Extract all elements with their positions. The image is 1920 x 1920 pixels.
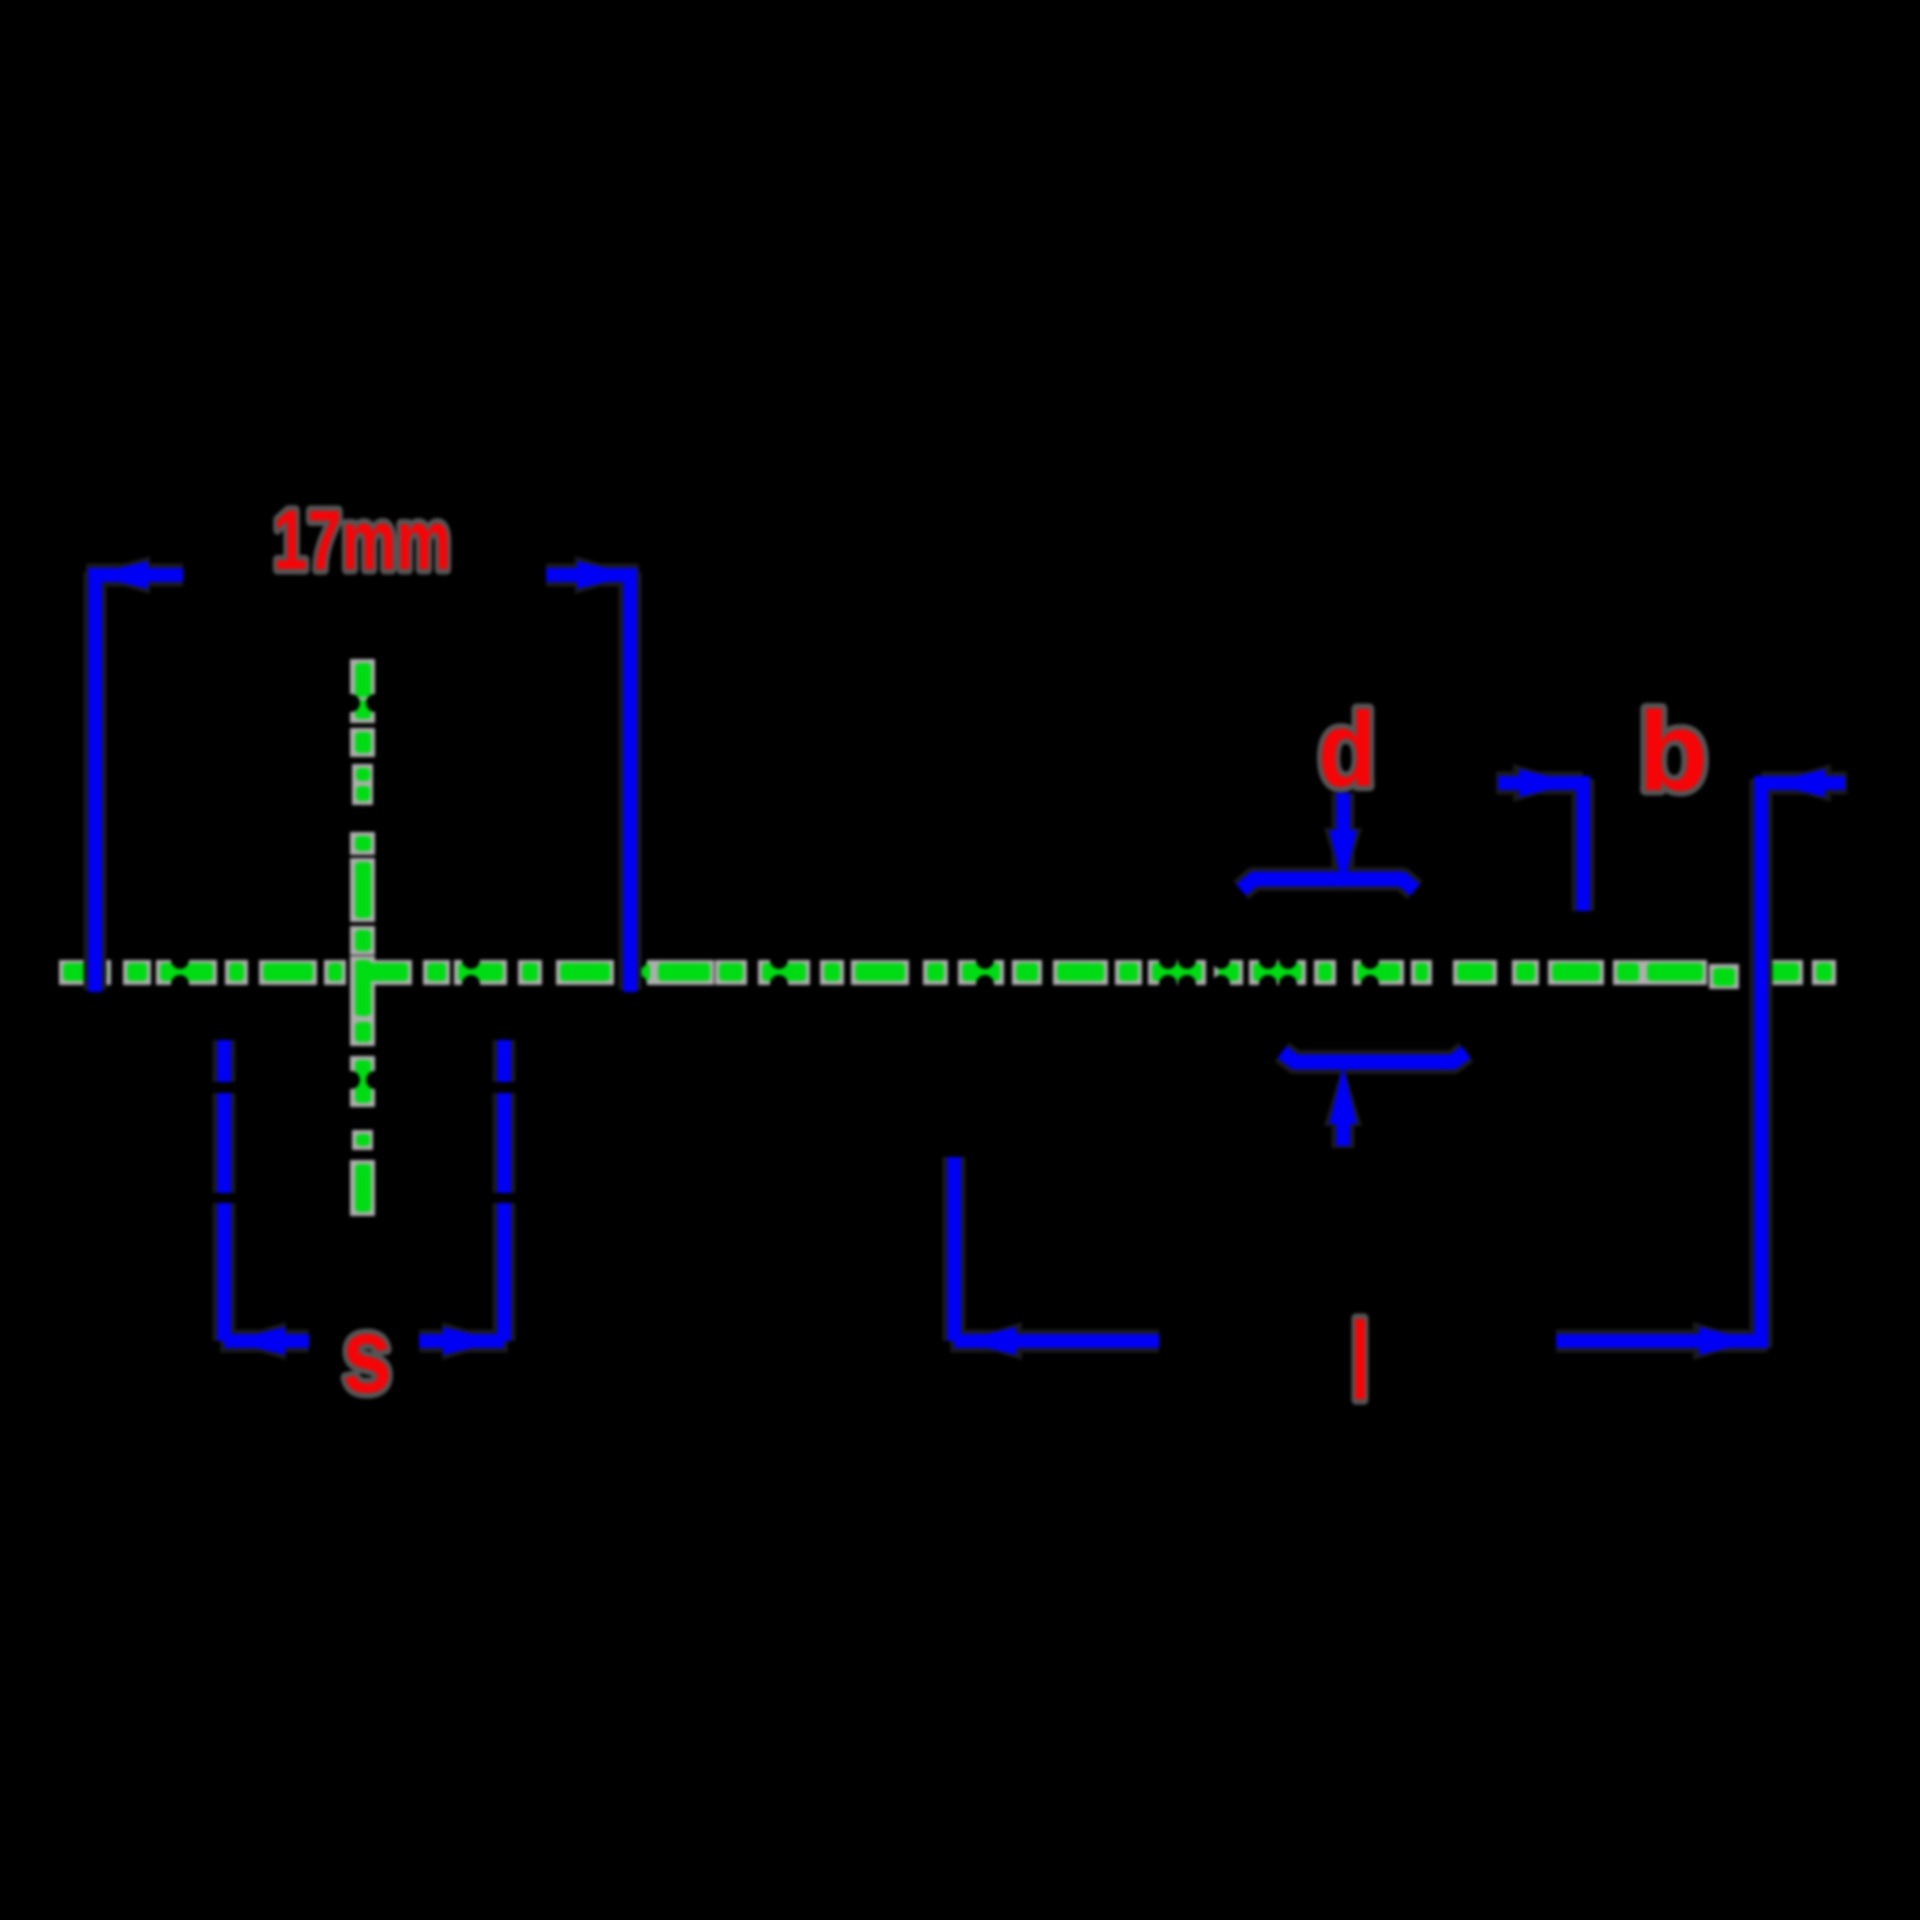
svg-text:17mm: 17mm xyxy=(273,493,451,587)
wire: left leg of b dimension xyxy=(1576,776,1590,911)
svg-text:l: l xyxy=(1350,1300,1370,1423)
wire: left dimension line of l xyxy=(954,1334,1159,1348)
horizontal centerline (green dash-dot) xyxy=(63,963,1832,986)
arrowhead left-pointing (b right) xyxy=(1767,769,1825,797)
vertical centerline (green dash-dot) xyxy=(355,663,371,1212)
wire: right dimension line of b xyxy=(1761,776,1845,790)
edge bar: top of shaft (d) xyxy=(1241,879,1415,890)
arrowhead left (17mm) xyxy=(90,561,148,589)
wire: left leg of s dimension (dashed) xyxy=(217,1040,231,1348)
centerline casing (vertical) xyxy=(350,659,375,1216)
arrowhead left (s) xyxy=(227,1327,285,1355)
wire: right leg of s dimension (dashed) xyxy=(497,1040,511,1348)
svg-text:d: d xyxy=(1318,691,1376,809)
arrowhead right-pointing (b left) xyxy=(1519,769,1577,797)
dimension furniture (blue) xyxy=(88,561,1845,1355)
wire: left leg of l dimension xyxy=(947,1157,961,1341)
arrowhead right (l) xyxy=(1699,1327,1757,1355)
wire: shared right leg of b and l dimensions xyxy=(1754,776,1768,1348)
arrowhead up (d lower) xyxy=(1329,1066,1357,1124)
wire: left extension leg of 17mm dimension xyxy=(88,568,102,992)
wire: right extension leg of 17mm dimension xyxy=(623,568,637,992)
wire: right dimension line of l xyxy=(1556,1334,1768,1348)
arrowhead right (s) xyxy=(443,1327,501,1355)
wire: lower arrow shaft of d xyxy=(1336,1118,1350,1146)
dimension furniture halos xyxy=(86,556,1847,1360)
wire: right dimension line of 17mm xyxy=(546,568,637,582)
arrowhead right (17mm) xyxy=(577,561,635,589)
arrowhead left (l) xyxy=(958,1327,1016,1355)
svg-text:b: b xyxy=(1638,689,1708,814)
wire: left dimension line of s xyxy=(224,1334,309,1348)
centerline pinches xyxy=(86,694,1379,1089)
wire: left dimension line of 17mm xyxy=(88,568,183,582)
edge bar: bottom of shaft (d) xyxy=(1282,1052,1466,1062)
wire: right dimension line of s xyxy=(419,1334,504,1348)
centerline casing (horizontal) xyxy=(59,960,1836,989)
wire: upper arrow shaft of d xyxy=(1336,793,1350,845)
wire: left dimension line of b xyxy=(1498,776,1583,790)
arrowhead down (d upper) xyxy=(1329,830,1357,888)
svg-text:s: s xyxy=(342,1294,392,1415)
